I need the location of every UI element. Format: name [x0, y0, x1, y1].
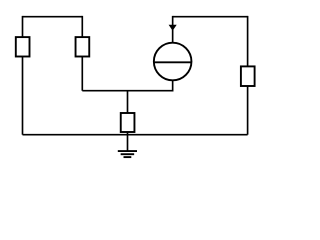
- resistor R2: [76, 37, 90, 56]
- wire bottom horizontal: [23, 134, 248, 136]
- wire R4 branch vertical: [127, 91, 129, 135]
- wire source top vertical: [172, 16, 174, 45]
- current source I1: [154, 43, 192, 81]
- wire ground stub: [127, 135, 129, 151]
- current direction arrow: [169, 25, 177, 31]
- wire R2 branch vertical: [81, 16, 83, 91]
- wire top-left horizontal: [23, 16, 83, 18]
- wire left vertical: [22, 16, 24, 135]
- ground: [118, 151, 137, 157]
- resistor R3: [241, 66, 255, 86]
- wire source bottom vertical: [172, 70, 174, 92]
- resistor R4: [121, 113, 135, 132]
- wire middle horizontal: [82, 90, 172, 92]
- resistor R1: [16, 37, 30, 56]
- wire top-right horizontal: [173, 16, 248, 18]
- wire right vertical: [247, 16, 249, 135]
